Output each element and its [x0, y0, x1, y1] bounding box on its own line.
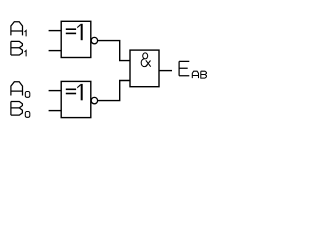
- label A0 letter A: [11, 82, 23, 96]
- wire input B1: [49, 50, 62, 52]
- wire input B0: [49, 110, 62, 112]
- AND gate U3 body: [130, 50, 159, 87]
- wire AND output: [159, 70, 172, 72]
- XOR gate U2 label =1: [66, 84, 83, 100]
- XOR gate U1 label =1: [66, 24, 83, 40]
- label A0 subscript 0: [25, 92, 30, 98]
- label B0 subscript 0: [25, 112, 30, 118]
- XOR gate U1 output inverter bubble: [91, 37, 97, 43]
- label A1 subscript 1: [25, 30, 27, 36]
- label A1 letter A: [11, 22, 23, 36]
- label B0 letter B: [11, 102, 23, 116]
- wire U1 output to AND top input: [98, 41, 130, 61]
- label EAB subscript B: [201, 71, 207, 78]
- label EAB subscript A: [192, 71, 198, 78]
- label B1 subscript 1: [25, 50, 27, 56]
- XOR gate U1 body: [61, 21, 91, 57]
- wire U2 output to AND bottom input: [98, 81, 130, 101]
- wire input A0: [49, 90, 62, 92]
- wire input A1: [49, 30, 62, 32]
- XOR gate U2 output inverter bubble: [91, 97, 97, 103]
- label B1 letter B: [11, 41, 23, 55]
- AND gate U3 label ampersand: [141, 53, 151, 67]
- XOR gate U2 body: [61, 81, 91, 117]
- label EAB letter E: [179, 61, 189, 75]
